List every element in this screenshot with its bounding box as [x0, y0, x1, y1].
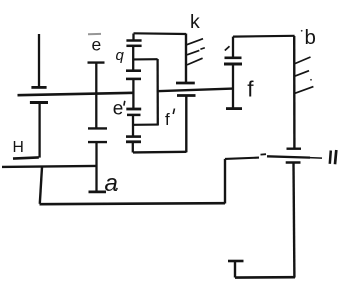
svg-text:f: f	[165, 110, 170, 129]
svg-text:e: e	[113, 98, 124, 119]
svg-text:H: H	[13, 139, 24, 156]
svg-text:e: e	[92, 34, 102, 54]
svg-text:b: b	[305, 26, 316, 49]
svg-text:a: a	[105, 170, 118, 197]
svg-text:f: f	[247, 76, 254, 101]
svg-text:k: k	[190, 11, 200, 33]
svg-text:q: q	[116, 47, 125, 64]
